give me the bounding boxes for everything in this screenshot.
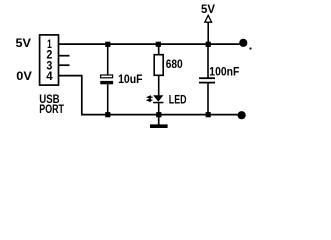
junction: 100nF/5V supply to rail	[206, 42, 211, 47]
svg-text:10uF: 10uF	[118, 74, 143, 86]
junction: LED/ground to 0V rail	[156, 112, 161, 117]
resistor R1 bottom lead	[158, 75, 160, 95]
capacitor C1 10uF negative plate (solid)	[100, 81, 113, 84]
junction: 10uF to 5V rail	[105, 42, 110, 47]
capacitor C2 100nF top lead	[207, 44, 209, 77]
capacitor C2 100nF bottom lead	[207, 83, 209, 115]
wire pin4 vertical drop	[81, 75, 83, 115]
capacitor C1 10uF positive plate (hollow)	[101, 75, 113, 78]
LED D1 anode triangle	[153, 95, 163, 101]
svg-text:0V: 0V	[16, 69, 32, 83]
junction: resistor to 5V rail	[156, 42, 161, 47]
ground bar	[150, 124, 168, 128]
terminal: 0V output	[238, 111, 246, 119]
capacitor C1 10uF bottom lead	[107, 84, 109, 114]
ground stub	[158, 115, 160, 125]
LED D1 emission arrow 2	[147, 99, 152, 102]
svg-text:4: 4	[46, 71, 53, 83]
wire bottom rail (0V rail)	[81, 114, 238, 116]
svg-text:100nF: 100nF	[209, 66, 239, 78]
capacitor C2 100nF top plate	[199, 77, 215, 79]
wire pin2 stub	[59, 55, 70, 57]
5V power triangle symbol	[205, 15, 212, 22]
capacitor C2 100nF bottom plate	[199, 82, 215, 84]
wire pin1 to top rail (5V rail)	[59, 43, 239, 45]
wire pin4 horizontal	[59, 75, 82, 77]
LED D1 emission arrow 1	[147, 96, 152, 99]
LED D1 cathode bar	[153, 102, 163, 104]
resistor R1 top lead	[158, 44, 160, 54]
junction: 100nF to 0V rail	[206, 112, 211, 117]
LED D1 cathode lead	[158, 103, 160, 114]
USB port connector J1 body	[40, 35, 59, 85]
svg-text:LED: LED	[169, 95, 187, 107]
svg-text:680: 680	[166, 59, 183, 71]
svg-text:PORT: PORT	[39, 104, 64, 116]
junction: 10uF to 0V rail	[105, 112, 110, 117]
wire pin3 stub	[59, 64, 70, 66]
terminal: 5V output	[239, 39, 247, 47]
stray dot	[249, 47, 251, 49]
capacitor C1 10uF top lead	[107, 44, 109, 75]
svg-text:5V: 5V	[16, 38, 32, 50]
resistor R1 body	[154, 55, 163, 76]
5V supply lead	[207, 22, 209, 44]
